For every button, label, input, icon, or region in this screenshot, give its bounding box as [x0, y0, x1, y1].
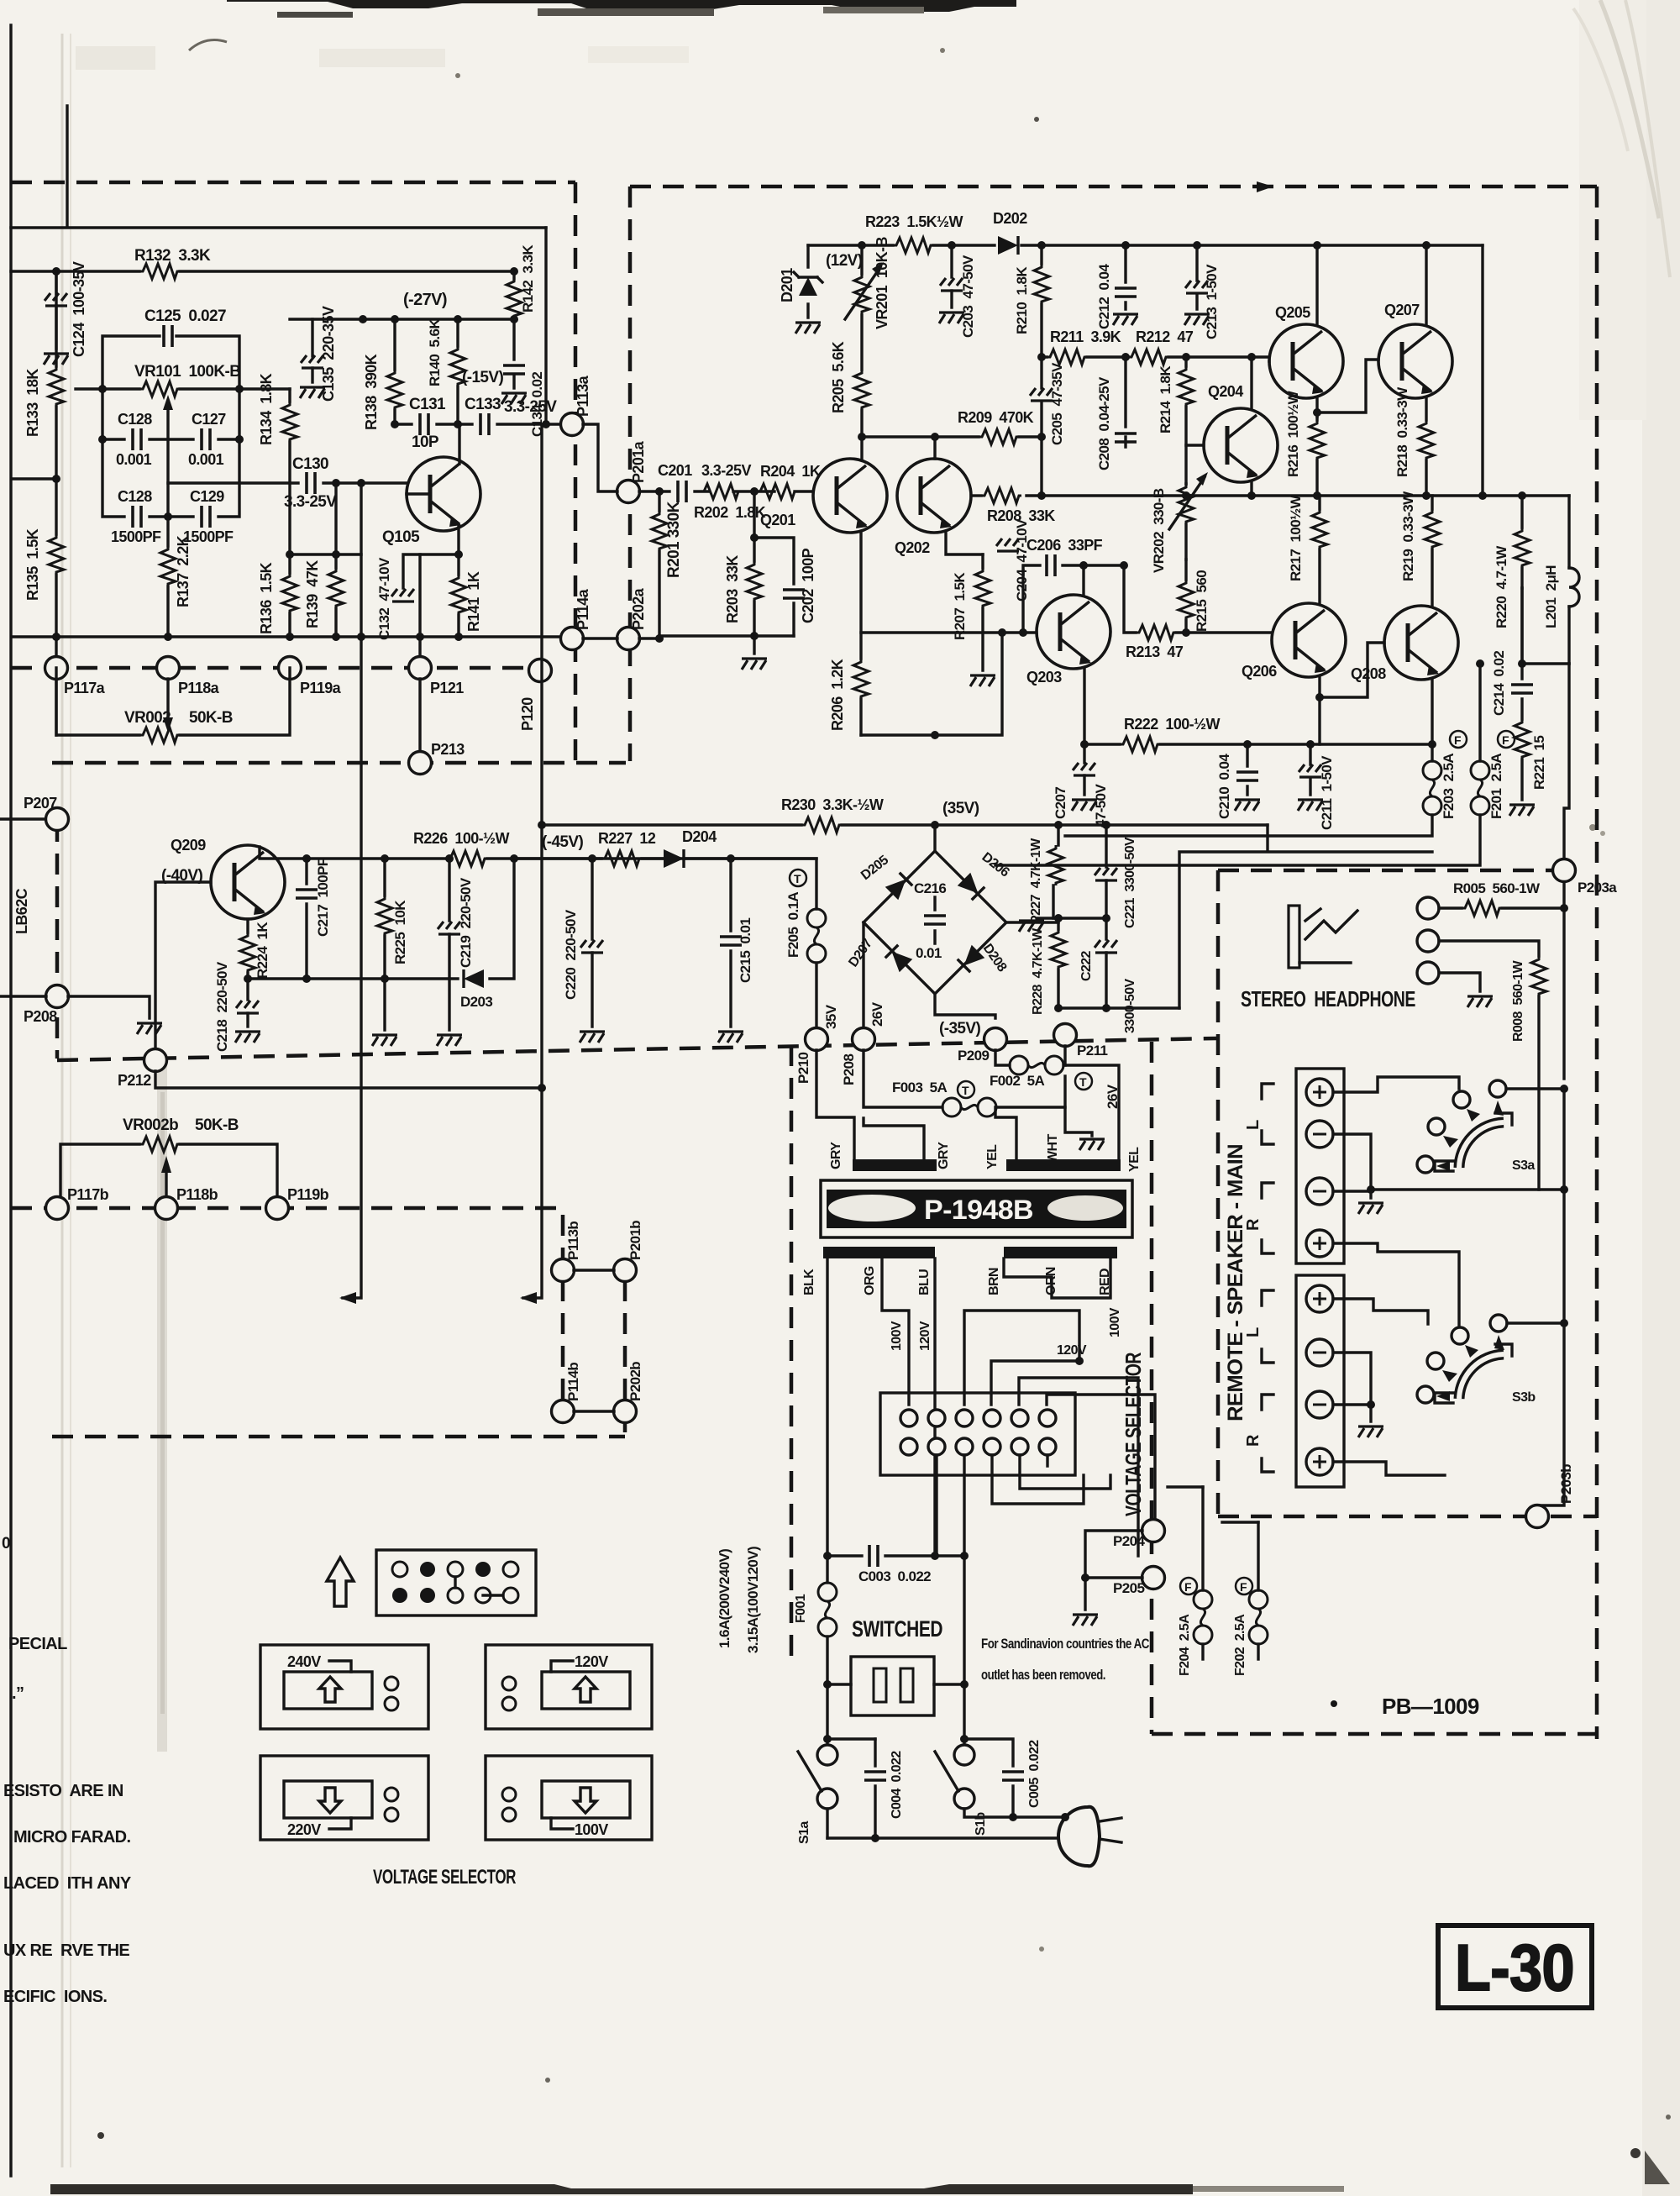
transistor Q204: [1204, 408, 1278, 482]
wire Q206 emitter to rail: [1318, 697, 1320, 744]
capacitor C205: [1040, 357, 1042, 437]
resistor R136: [288, 554, 291, 637]
svg-text:(35V): (35V): [942, 800, 979, 817]
svg-text:P212: P212: [118, 1072, 151, 1089]
svg-text:S3b: S3b: [1512, 1390, 1536, 1405]
capacitor C208: [1124, 357, 1126, 447]
resistor R141: [457, 554, 459, 637]
wire top rail: [11, 226, 546, 229]
connector P211: [1054, 1024, 1077, 1047]
svg-text:120V: 120V: [575, 1653, 608, 1670]
svg-text:P117b: P117b: [67, 1186, 109, 1203]
connector P208b: [853, 1028, 875, 1051]
capacitor C125: [164, 325, 172, 347]
svg-text:R134 1.8K: R134 1.8K: [258, 373, 275, 445]
svg-text:P-1948B: P-1948B: [924, 1195, 1033, 1225]
svg-text:F205 0.1A: F205 0.1A: [785, 892, 801, 958]
svg-text:R204 1K: R204 1K: [760, 463, 821, 480]
wire ground bus to main vertical: [1371, 1188, 1564, 1190]
svg-text:REMOTE - SPEAKER - MAIN: REMOTE - SPEAKER - MAIN: [1224, 1144, 1247, 1421]
connector P117b: [46, 1197, 69, 1220]
svg-text:F201 2.5A: F201 2.5A: [1488, 754, 1504, 819]
svg-text:120V: 120V: [918, 1321, 932, 1351]
wires remote minus to ground: [1333, 1353, 1371, 1421]
L R bracket labels: [1262, 1084, 1273, 1144]
connector P203b: [1526, 1505, 1549, 1528]
svg-text:R207 1.5K: R207 1.5K: [952, 572, 968, 640]
svg-text:R214 1.8K: R214 1.8K: [1158, 365, 1173, 433]
svg-text:(-45V): (-45V): [542, 833, 583, 851]
wire Q203 base row: [861, 631, 1037, 633]
winding bars top: [853, 1159, 937, 1171]
svg-text:ORG: ORG: [863, 1266, 877, 1295]
capacitor C207: [1083, 744, 1085, 763]
wire stub left: [12, 477, 56, 480]
capacitor C212: [1124, 245, 1126, 309]
wire bottom bus: [12, 635, 563, 638]
resistor R227: [601, 851, 642, 866]
resistor R214: [1184, 357, 1187, 484]
potentiometer VR101: [76, 387, 290, 390]
svg-text:F: F: [1184, 1580, 1192, 1594]
capacitor C131: [420, 413, 428, 435]
potentiometer VR201: [854, 274, 869, 314]
wire emitter lower rail: [861, 633, 1002, 735]
wire Q208 emitter: [1431, 680, 1433, 744]
resistor R132: [139, 264, 180, 279]
capacitor C128: [133, 506, 141, 528]
resistor R212: [1128, 349, 1168, 365]
svg-text:VR202 330-B: VR202 330-B: [1151, 488, 1167, 573]
svg-text:D207: D207: [846, 937, 875, 970]
connector P113a: [561, 413, 584, 436]
transformer body P-1948B: [821, 1180, 1132, 1237]
primary lead wires: [827, 1258, 1155, 1556]
svg-text:C130: C130: [292, 455, 328, 473]
wire Q202 emitter: [946, 533, 983, 554]
svg-text:.”: .”: [12, 1684, 24, 1703]
dashed right edge of power amp board PB-1009: [1595, 187, 1599, 1739]
capacitor C214: [1520, 588, 1523, 719]
wire P121 riser: [418, 554, 421, 656]
dashed bottom of top-left board / P213 line: [52, 761, 626, 765]
svg-text:R135 1.5K: R135 1.5K: [24, 528, 41, 601]
svg-text:R218 0.33-3W: R218 0.33-3W: [1394, 386, 1410, 477]
wire second rail with R132: [11, 270, 514, 272]
transistor Q209: [211, 845, 285, 919]
wire secondary leads: [816, 1050, 1119, 1161]
capacitor C134: [512, 319, 515, 360]
svg-text:1.6A(200V240V): 1.6A(200V240V): [717, 1549, 732, 1648]
svg-text:P118b: P118b: [176, 1186, 218, 1203]
wire P113a to P201a: [583, 424, 617, 491]
resistor R137: [166, 517, 169, 637]
svg-text:C202 100P: C202 100P: [800, 548, 816, 623]
svg-text:R138 390K: R138 390K: [363, 354, 380, 430]
svg-text:D206: D206: [979, 850, 1012, 880]
terminal + L main: [1306, 1079, 1333, 1106]
diode D203: [464, 969, 484, 988]
wire Q203 emitter: [1083, 669, 1085, 744]
svg-text:0.01: 0.01: [916, 945, 942, 961]
resistor P227 4.7K-1W: [1053, 825, 1058, 918]
capacitor C132: [403, 554, 459, 588]
svg-text:BLU: BLU: [917, 1269, 932, 1295]
svg-text:C214 0.02: C214 0.02: [1491, 651, 1507, 716]
transistor Q206: [1272, 603, 1346, 677]
svg-text:C220 220-50V: C220 220-50V: [563, 909, 579, 1000]
fuse F204: [1201, 1487, 1204, 1590]
svg-text:3.3-25V: 3.3-25V: [504, 398, 557, 416]
svg-text:Q206: Q206: [1242, 663, 1277, 680]
svg-text:VR201 10K-B: VR201 10K-B: [874, 237, 890, 329]
svg-text:R211 3.9K: R211 3.9K: [1050, 328, 1121, 345]
svg-text:P204: P204: [1113, 1533, 1145, 1549]
svg-text:F001: F001: [794, 1594, 808, 1623]
dashed speaker board top edge: [1218, 869, 1552, 873]
selector legend arrow: [327, 1558, 354, 1606]
dashed vertical through P113b/P114b: [561, 1215, 565, 1401]
svg-text:240V: 240V: [287, 1653, 321, 1670]
transistor Q205: [1269, 324, 1343, 398]
wire collectors row: [862, 437, 1042, 459]
svg-text:C206 33PF: C206 33PF: [1026, 537, 1103, 554]
svg-text:3300-50V: 3300-50V: [1123, 978, 1137, 1033]
svg-text:(12V): (12V): [826, 252, 863, 270]
svg-text:P120: P120: [519, 697, 536, 731]
wire -45V to R227: [514, 859, 816, 909]
wires below selector block: [937, 1455, 1110, 1684]
selector diagram 120V: [486, 1645, 652, 1729]
capacitor C215: [729, 859, 732, 1027]
resistor R202: [701, 484, 741, 499]
resistor R224: [246, 919, 249, 979]
jack sleeve ground: [1439, 973, 1480, 991]
wire -27V rail: [290, 318, 514, 320]
dashed right edge of transformer board (VOLTAGE SELECTOR): [1150, 1042, 1154, 1734]
wires upper terminals to S3a: [1333, 1077, 1459, 1092]
wire P204/P205 ground: [1085, 1531, 1142, 1610]
capacitor C217: [305, 859, 307, 979]
svg-text:R005 560-1W: R005 560-1W: [1453, 880, 1541, 896]
svg-text:C129: C129: [190, 488, 224, 505]
svg-text:R210 1.8K: R210 1.8K: [1014, 266, 1030, 334]
wire input row: [639, 490, 813, 492]
switch S3a: [1489, 1080, 1506, 1097]
svg-text:220V: 220V: [287, 1821, 321, 1838]
capacitor C219: [448, 859, 450, 979]
wire bridge left to P208b: [862, 922, 864, 1030]
resistor R201: [658, 491, 660, 636]
speaker terminal box main: [1296, 1069, 1344, 1263]
svg-text:50K-B: 50K-B: [195, 1116, 239, 1134]
wire base node row: [248, 859, 514, 979]
svg-text:R213 47: R213 47: [1126, 644, 1184, 660]
svg-text:R: R: [1244, 1434, 1263, 1447]
resistor R134: [288, 389, 291, 554]
svg-text:C131: C131: [409, 396, 446, 413]
dashed speaker board left edge: [1216, 870, 1221, 1516]
svg-text:P208: P208: [24, 1008, 57, 1025]
wire top rail: [808, 244, 1483, 246]
svg-text:BRN: BRN: [987, 1268, 1001, 1295]
zener D201: [806, 245, 809, 318]
svg-text:R220 4.7-1W: R220 4.7-1W: [1494, 545, 1509, 628]
svg-text:Q201: Q201: [760, 512, 795, 528]
connector P208: [46, 985, 69, 1008]
svg-text:Q205: Q205: [1275, 304, 1310, 321]
resistor R216: [1315, 417, 1318, 496]
transistor Q105: [407, 457, 480, 531]
svg-text:L201 2μH: L201 2μH: [1543, 565, 1559, 628]
svg-text:YEL: YEL: [985, 1144, 1000, 1169]
dashed long connector line P212 P210 P208 P209 P211: [57, 1038, 1216, 1060]
svg-text:3.3-25V: 3.3-25V: [284, 493, 337, 511]
wire main R+ down to S3b area: [1333, 1243, 1459, 1327]
capacitor C201: [678, 481, 686, 502]
resistor R205: [860, 315, 863, 437]
resistor R226: [447, 851, 487, 866]
svg-text:P205: P205: [1113, 1580, 1144, 1596]
svg-text:R215 560: R215 560: [1194, 570, 1210, 632]
svg-text:P114b: P114b: [565, 1363, 581, 1401]
svg-text:Q209: Q209: [171, 837, 206, 854]
wire filter bottom row: [1058, 1006, 1179, 1009]
svg-text:C221 3300-50V: C221 3300-50V: [1123, 837, 1137, 928]
wire emitter row: [290, 553, 361, 555]
transistor Q201: [813, 459, 887, 533]
wire C205 R209 node: [1040, 437, 1042, 496]
svg-text:R224 1K: R224 1K: [255, 922, 270, 979]
wire long vertical with arrow: [523, 424, 542, 1298]
node: [510, 267, 518, 276]
svg-text:26V: 26V: [869, 1001, 885, 1027]
svg-text:Q203: Q203: [1026, 669, 1062, 686]
capacitor C124: [55, 271, 57, 294]
connector P118b: [155, 1197, 178, 1220]
svg-text:R221 15: R221 15: [1531, 736, 1547, 790]
capacitor C133: [480, 413, 489, 435]
resistor R222: [1084, 743, 1432, 745]
svg-text:C004 0.022: C004 0.022: [890, 1751, 904, 1819]
svg-text:R217 100½W: R217 100½W: [1288, 494, 1304, 581]
wire bottom AC line: [827, 1817, 1065, 1838]
selector diagram 220V: [260, 1756, 428, 1840]
capacitor C202: [754, 538, 794, 636]
svg-text:R136 1.5K: R136 1.5K: [258, 562, 275, 634]
svg-text:C208 0.04-25V: C208 0.04-25V: [1096, 376, 1112, 470]
wire Q208 base from Q206 emitter: [1320, 643, 1384, 697]
resistor R225: [383, 859, 386, 979]
resistor R204: [757, 484, 797, 499]
svg-text:LACED ITH ANY: LACED ITH ANY: [3, 1874, 132, 1893]
svg-text:P211: P211: [1077, 1043, 1108, 1059]
svg-text:F: F: [1240, 1580, 1247, 1594]
terminal - L main: [1306, 1121, 1333, 1148]
svg-text:ESISTO ARE IN: ESISTO ARE IN: [3, 1782, 123, 1800]
svg-text:R223 1.5K½W: R223 1.5K½W: [865, 213, 963, 230]
capacitor C127: [202, 428, 210, 450]
dashed right edge of top-left board: [574, 182, 578, 760]
svg-text:0: 0: [2, 1535, 10, 1552]
svg-text:C204 47-10V: C204 47-10V: [1014, 518, 1030, 602]
wire 35V rail elbow down right: [1179, 825, 1432, 1008]
wire P207 stub: [0, 817, 46, 820]
transistor Q203: [1037, 595, 1110, 669]
svg-text:R228 4.7K-1W: R228 4.7K-1W: [1031, 927, 1045, 1015]
svg-text:R140 5.6K: R140 5.6K: [427, 318, 443, 386]
svg-text:R230 3.3K-½W: R230 3.3K-½W: [781, 796, 884, 813]
svg-text:R206 1.2K: R206 1.2K: [829, 659, 846, 731]
resistor R210: [1040, 245, 1042, 357]
connectors P114b P202b: [552, 1400, 575, 1423]
svg-text:R216 100½W: R216 100½W: [1285, 390, 1301, 477]
capacitor C218: [246, 979, 249, 1000]
svg-text:C133: C133: [465, 396, 501, 413]
fuse F003: [864, 1050, 942, 1107]
dashed left edge lower-left supply box: [55, 821, 60, 1059]
svg-text:C135 220-35V: C135 220-35V: [320, 306, 337, 402]
wire main vertical down to P203b: [1537, 1089, 1564, 1505]
resistor R228 4.7K-1W: [1057, 918, 1059, 1008]
transistor Q202: [897, 459, 971, 533]
svg-text:R203 33K: R203 33K: [724, 555, 741, 623]
svg-text:STEREO HEADPHONE: STEREO HEADPHONE: [1241, 986, 1415, 1011]
svg-text:P121: P121: [430, 680, 464, 696]
dashed speaker board bottom edge: [1218, 1515, 1597, 1519]
capacitor C135: [311, 319, 313, 356]
svg-text:F003 5A: F003 5A: [892, 1080, 947, 1095]
svg-text:PECIAL: PECIAL: [8, 1635, 67, 1653]
svg-text:S3a: S3a: [1512, 1158, 1535, 1173]
fuse F201: [1478, 664, 1481, 761]
svg-text:F203 2.5A: F203 2.5A: [1441, 754, 1457, 819]
svg-text:C005 0.022: C005 0.022: [1027, 1740, 1042, 1808]
svg-text:100V: 100V: [1108, 1307, 1122, 1337]
potentiometer VR002: [56, 668, 290, 735]
svg-text:L-30: L-30: [1455, 1931, 1574, 2004]
fuse F205: [807, 909, 826, 963]
fuse F202: [1257, 1522, 1259, 1590]
wire Q209 base left and down to P212: [155, 882, 211, 1049]
wire R220/L201 join: [1522, 588, 1569, 664]
svg-text:C207: C207: [1053, 787, 1068, 819]
svg-text:C222: C222: [1079, 950, 1094, 981]
svg-text:L: L: [1244, 1120, 1263, 1130]
svg-text:C217 100PF: C217 100PF: [315, 858, 331, 937]
wire: [334, 483, 337, 568]
resistor R133: [55, 271, 57, 479]
svg-text:ECIFIC IONS.: ECIFIC IONS.: [3, 1988, 107, 2006]
svg-text:R: R: [1244, 1218, 1263, 1231]
wire to Q206 base: [1186, 631, 1272, 633]
diode D202: [998, 236, 1018, 255]
connector P210: [806, 1028, 828, 1051]
capacitor C216: [933, 897, 936, 943]
capacitor C211: [1309, 744, 1311, 795]
svg-text:T: T: [1079, 1075, 1087, 1089]
resistor R215: [1184, 560, 1187, 633]
connector P120: [529, 659, 552, 682]
switch S3b: [1490, 1315, 1507, 1332]
resistor R221: [1515, 719, 1530, 759]
wire bridge top to 35V rail: [933, 825, 936, 851]
svg-text:P117a: P117a: [64, 680, 106, 696]
inductor L201: [1567, 496, 1570, 568]
wire bridge bottom to P209: [935, 994, 995, 1018]
transistor Q208: [1384, 606, 1458, 680]
left page border line: [9, 25, 12, 2176]
capacitor C220: [591, 859, 593, 1027]
svg-text:(-27V): (-27V): [403, 291, 447, 309]
dashed module boundary: top edge of both boards: [11, 182, 1597, 187]
svg-text:P201b: P201b: [627, 1221, 643, 1260]
svg-text:R141 1K: R141 1K: [465, 571, 482, 632]
svg-text:P119a: P119a: [300, 680, 342, 696]
svg-text:10P: 10P: [412, 433, 439, 451]
resistor R138: [393, 319, 396, 424]
svg-text:R225 10K: R225 10K: [392, 900, 408, 964]
svg-text:C216: C216: [914, 880, 946, 896]
wire fuse feeds: [1168, 1487, 1258, 1522]
resistor R217: [1318, 496, 1320, 604]
svg-text:R201 330K: R201 330K: [665, 501, 683, 578]
resistor R211: [1047, 349, 1087, 365]
svg-text:C211 1-50V: C211 1-50V: [1319, 755, 1335, 830]
terminal - R main: [1306, 1178, 1333, 1205]
svg-text:F: F: [1454, 733, 1462, 747]
svg-text:Q207: Q207: [1384, 302, 1420, 318]
resistor R230 rail: [542, 823, 1268, 826]
connector P203a: [1553, 859, 1576, 882]
svg-text:C132 47-10V: C132 47-10V: [376, 557, 392, 640]
svg-text:C125 0.027: C125 0.027: [144, 307, 226, 325]
terminal + R main: [1306, 1230, 1333, 1257]
connector P118a: [157, 657, 180, 680]
svg-text:P118a: P118a: [178, 680, 220, 696]
svg-text:GRY: GRY: [829, 1142, 843, 1169]
svg-text:VR101 100K-B: VR101 100K-B: [134, 363, 240, 381]
capacitor C005: [964, 1739, 1013, 1817]
terminal - L remote: [1306, 1339, 1333, 1366]
svg-text:D202: D202: [993, 210, 1027, 227]
svg-text:C210 0.04: C210 0.04: [1216, 754, 1232, 819]
resistor R139: [334, 608, 337, 637]
svg-text:1500PF: 1500PF: [111, 528, 161, 545]
connector P212: [144, 1049, 167, 1072]
svg-text:S1a: S1a: [797, 1821, 811, 1844]
svg-text:R133 18K: R133 18K: [24, 369, 41, 437]
fuse F001: [826, 1556, 828, 1583]
wire WHT ground: [1065, 1107, 1092, 1136]
capacitor C004: [874, 1739, 876, 1838]
wire S3a common to speaker line: [1506, 1087, 1564, 1090]
svg-text:R212 47: R212 47: [1136, 328, 1194, 345]
svg-text:R209 470K: R209 470K: [958, 409, 1034, 426]
svg-text:P201a: P201a: [630, 440, 647, 483]
svg-text:C124 100-35V: C124 100-35V: [71, 261, 87, 357]
dashed left edge of power amp board: [628, 187, 633, 761]
svg-text:T: T: [794, 872, 801, 885]
svg-text:(-35V): (-35V): [939, 1020, 980, 1038]
svg-text:VOLTAGE SELECTOR: VOLTAGE SELECTOR: [1121, 1352, 1146, 1516]
svg-text:R142 3.3K: R142 3.3K: [520, 244, 536, 313]
switch Sb: [963, 1684, 965, 1745]
svg-text:R227 12: R227 12: [598, 830, 656, 847]
potentiometer VR002b: [60, 1144, 277, 1196]
svg-text:MICRO FARAD.: MICRO FARAD.: [13, 1828, 131, 1847]
wire long vertical to lower board: [343, 483, 361, 1298]
